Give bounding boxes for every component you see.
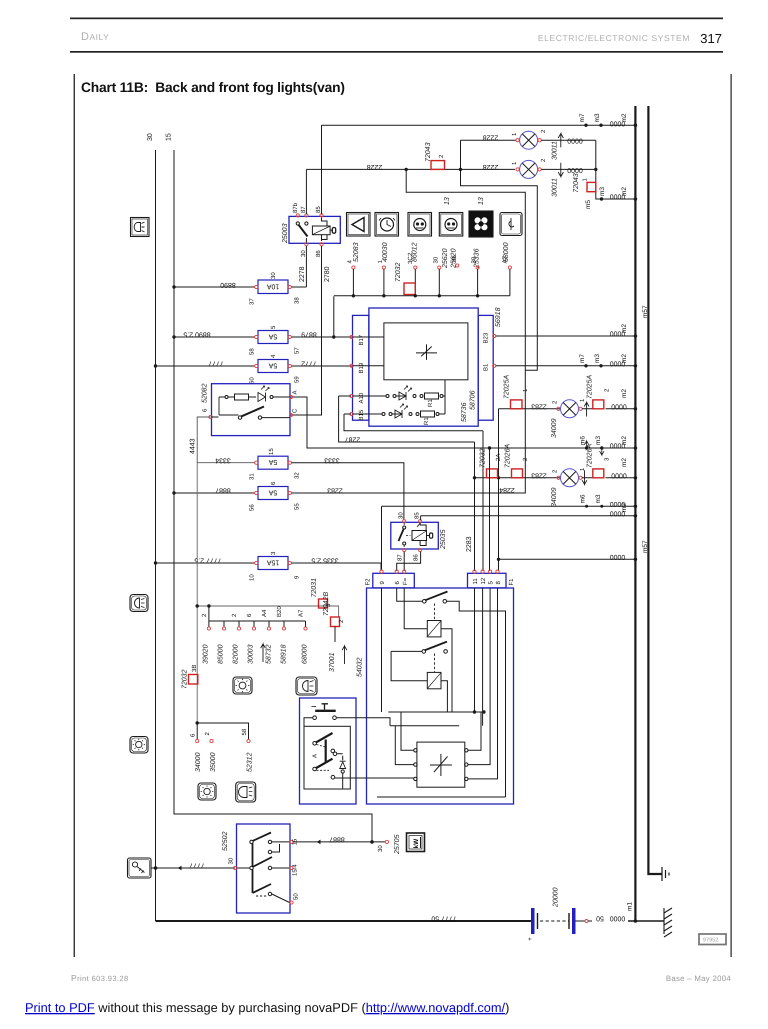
front fog lamp 30011 #1 bbox=[511, 129, 596, 160]
svg-text:20000: 20000 bbox=[553, 887, 560, 908]
svg-text:3335 2.5: 3335 2.5 bbox=[311, 557, 338, 564]
header second rule bbox=[70, 51, 723, 53]
svg-text:72026A: 72026A bbox=[505, 444, 512, 468]
svg-text:30: 30 bbox=[377, 845, 384, 852]
svg-text:3333: 3333 bbox=[324, 456, 340, 463]
svg-text:72026A: 72026A bbox=[587, 444, 594, 468]
svg-text:F1: F1 bbox=[508, 578, 515, 586]
svg-text:4443: 4443 bbox=[190, 438, 197, 454]
svg-text:37: 37 bbox=[249, 298, 256, 305]
bottom-right code box 97952 bbox=[699, 934, 726, 945]
svg-text:72025A: 72025A bbox=[504, 375, 511, 399]
svg-text:56: 56 bbox=[249, 504, 256, 511]
svg-text:m5: m5 bbox=[585, 200, 592, 209]
svg-text:86: 86 bbox=[315, 250, 322, 257]
svg-text:8890: 8890 bbox=[220, 281, 236, 288]
lower pin bus bbox=[201, 606, 309, 664]
svg-text:5A: 5A bbox=[268, 333, 277, 340]
svg-text:57: 57 bbox=[294, 347, 301, 354]
drop 2283 to F1 pin 11 bbox=[466, 442, 475, 571]
svg-text:B1: B1 bbox=[483, 363, 490, 371]
svg-text:A: A bbox=[292, 390, 299, 394]
icon park lamp bbox=[198, 783, 216, 800]
svg-text:m3: m3 bbox=[595, 436, 602, 445]
big control unit 54032 bbox=[357, 588, 514, 804]
svg-text:2284: 2284 bbox=[499, 486, 515, 493]
svg-text:5A: 5A bbox=[268, 362, 277, 369]
svg-text:30: 30 bbox=[433, 256, 440, 263]
svg-text:m2: m2 bbox=[621, 324, 628, 333]
svg-text:m2: m2 bbox=[621, 389, 628, 398]
wire 2780 to switch C bbox=[290, 246, 322, 415]
connector strip F2 bbox=[365, 570, 415, 588]
front fog lamp 30011 #2 bbox=[511, 158, 596, 197]
ignition switch 52502 bbox=[222, 824, 300, 913]
svg-text:15: 15 bbox=[166, 133, 173, 141]
supply line 30 bbox=[155, 150, 157, 921]
ground row from F2 bbox=[382, 494, 638, 570]
svg-text:32: 32 bbox=[294, 472, 301, 479]
svg-text:8879: 8879 bbox=[301, 331, 317, 338]
connector 72032 on 86012 wire bbox=[395, 262, 415, 294]
svg-text:86: 86 bbox=[413, 554, 420, 561]
svg-text:7777 2.5: 7777 2.5 bbox=[194, 557, 221, 564]
switch A wire to ground bbox=[290, 397, 637, 455]
svg-text:72032: 72032 bbox=[395, 262, 402, 282]
svg-text:2287: 2287 bbox=[345, 435, 361, 442]
svg-text:50: 50 bbox=[293, 893, 300, 900]
svg-text:30: 30 bbox=[398, 512, 405, 519]
svg-text:2228: 2228 bbox=[483, 134, 499, 141]
svg-text:25620: 25620 bbox=[442, 248, 449, 269]
svg-text:2283: 2283 bbox=[531, 402, 547, 409]
control unit 56918 bbox=[350, 307, 502, 426]
svg-text:8887: 8887 bbox=[215, 487, 231, 494]
svg-text:30011: 30011 bbox=[552, 141, 559, 160]
svg-text:0000: 0000 bbox=[611, 471, 627, 478]
svg-text:56918: 56918 bbox=[495, 307, 502, 327]
svg-text:7777: 7777 bbox=[208, 360, 224, 367]
fuse row2 7777/5A/7772 bbox=[154, 354, 352, 384]
ground bus bar A bbox=[634, 106, 636, 921]
svg-text:Print 603.93.28: Print 603.93.28 bbox=[71, 973, 129, 983]
wire 2228 horizontal bbox=[306, 163, 515, 171]
icon interior lamp bbox=[233, 677, 252, 694]
rear fog lamp 34009 #2 row bbox=[473, 444, 637, 507]
svg-text:2278: 2278 bbox=[299, 266, 306, 282]
svg-text:5A: 5A bbox=[268, 489, 277, 496]
svg-text:3B: 3B bbox=[191, 665, 198, 672]
svg-text:25035: 25035 bbox=[440, 529, 447, 550]
svg-text:m2: m2 bbox=[621, 503, 628, 512]
svg-text:317: 317 bbox=[700, 31, 722, 46]
svg-text:52502: 52502 bbox=[222, 831, 229, 851]
svg-text:40030: 40030 bbox=[382, 242, 389, 262]
svg-text:39020: 39020 bbox=[203, 644, 210, 664]
battery bbox=[528, 887, 664, 943]
svg-text:7772: 7772 bbox=[301, 360, 317, 367]
svg-text:Base – May 2004: Base – May 2004 bbox=[666, 974, 732, 983]
icon heater fan 25336 bbox=[469, 197, 493, 296]
icon instrument 86012 bbox=[407, 213, 432, 296]
svg-text:12: 12 bbox=[480, 577, 487, 584]
svg-text:30: 30 bbox=[147, 133, 154, 141]
connector 72031 bbox=[311, 578, 332, 608]
svg-text:5A: 5A bbox=[268, 458, 277, 465]
svg-text:15A: 15A bbox=[266, 559, 279, 566]
svg-text:52312: 52312 bbox=[247, 752, 254, 772]
svg-text:37001: 37001 bbox=[329, 652, 336, 672]
top ground wire m7 m3 0000 bbox=[322, 113, 638, 127]
icon headlamp low beam bbox=[236, 782, 256, 802]
svg-text:25705: 25705 bbox=[394, 834, 401, 855]
svg-text:m3: m3 bbox=[599, 187, 606, 196]
fuse row1 8890/5A/8879 bbox=[172, 296, 352, 355]
B15 wire bbox=[344, 414, 483, 431]
svg-text:34000: 34000 bbox=[195, 752, 202, 772]
svg-text:0000: 0000 bbox=[567, 139, 583, 146]
fuse row4 8887/5A/2283 bbox=[172, 169, 525, 511]
svg-text:2283: 2283 bbox=[327, 487, 343, 494]
svg-text:13: 13 bbox=[478, 197, 485, 205]
svg-text:B17: B17 bbox=[358, 334, 365, 345]
svg-text:55: 55 bbox=[294, 503, 301, 510]
svg-text:0000: 0000 bbox=[610, 553, 626, 560]
svg-text:A10: A10 bbox=[358, 392, 365, 403]
svg-text:m6: m6 bbox=[580, 494, 587, 503]
svg-text:30011: 30011 bbox=[552, 178, 559, 197]
junction at ground row bbox=[497, 558, 500, 561]
svg-text:3334: 3334 bbox=[215, 456, 231, 463]
wire 7777 to ignition switch bbox=[151, 862, 235, 871]
B1 ground wire bbox=[496, 354, 637, 368]
gray riser to lower connectors bbox=[196, 463, 198, 723]
svg-text:A7: A7 bbox=[502, 255, 509, 263]
svg-text:8887: 8887 bbox=[329, 835, 345, 842]
drop B15 to F1 pin 12 bbox=[482, 431, 484, 571]
svg-text:2228: 2228 bbox=[367, 163, 383, 170]
svg-text:85: 85 bbox=[315, 206, 322, 213]
header top rule bbox=[70, 18, 723, 20]
svg-text:97952: 97952 bbox=[703, 938, 718, 944]
svg-text:A7: A7 bbox=[298, 609, 305, 617]
svg-text:58: 58 bbox=[241, 728, 248, 735]
small switch unit bbox=[300, 698, 414, 804]
svg-text:A: A bbox=[312, 754, 319, 758]
svg-text:m1: m1 bbox=[627, 902, 634, 911]
svg-text:54032: 54032 bbox=[357, 657, 364, 677]
tachograph kW box bbox=[407, 833, 425, 852]
svg-text:m3: m3 bbox=[595, 494, 602, 503]
svg-text:B20: B20 bbox=[276, 606, 283, 617]
connector strip F1 bbox=[468, 570, 516, 588]
pin bus wire 2278 feed bbox=[334, 294, 510, 297]
left icon headlamp bbox=[131, 218, 150, 237]
svg-text:60: 60 bbox=[249, 377, 256, 384]
icon lamp left bbox=[130, 737, 148, 754]
relay 85 riser bbox=[420, 516, 422, 521]
lower connector pins 34000/35000/52312 bbox=[190, 721, 254, 772]
icon rear fog switch bbox=[296, 677, 317, 695]
lamp1 30011 feed bbox=[461, 134, 538, 371]
svg-text:0000: 0000 bbox=[611, 402, 627, 409]
svg-text:52082: 52082 bbox=[202, 383, 209, 403]
connector 72043 on 2228 wire bbox=[425, 142, 445, 169]
svg-text:Print to PDF without this mess: Print to PDF without this message by pur… bbox=[25, 1000, 509, 1015]
svg-text:0000: 0000 bbox=[610, 119, 626, 126]
svg-text:A4: A4 bbox=[261, 609, 268, 617]
svg-text:58: 58 bbox=[249, 348, 256, 355]
svg-text:72043: 72043 bbox=[573, 173, 580, 193]
svg-text:50: 50 bbox=[596, 915, 604, 922]
svg-text:15/4: 15/4 bbox=[292, 864, 299, 876]
svg-text:m3: m3 bbox=[594, 354, 601, 363]
svg-text:31: 31 bbox=[249, 473, 256, 480]
svg-text:R1: R1 bbox=[427, 399, 434, 407]
relay 87 to F2 bbox=[403, 552, 405, 571]
icon instrument 25620 bbox=[433, 197, 463, 296]
icon clock 40030 bbox=[375, 213, 399, 296]
B23 ground wire bbox=[496, 324, 637, 338]
svg-text:DAILY: DAILY bbox=[81, 31, 109, 43]
svg-text:59: 59 bbox=[294, 376, 301, 383]
ground row from relay 85 bbox=[421, 503, 638, 518]
svg-text:kW: kW bbox=[413, 838, 420, 849]
feed vertical to lamps 34009 bbox=[498, 409, 500, 571]
svg-text:68000: 68000 bbox=[302, 644, 309, 664]
svg-text:35000: 35000 bbox=[210, 752, 217, 772]
drop A to F1 pin 5 bbox=[489, 448, 491, 571]
svg-text:m7: m7 bbox=[579, 113, 586, 122]
A10 wire 2287 bbox=[339, 396, 475, 442]
supply line 15 bbox=[174, 150, 372, 842]
svg-text:58736: 58736 bbox=[461, 402, 468, 422]
right page border bbox=[731, 74, 732, 957]
icon rear fog indicator left bbox=[130, 595, 148, 612]
svg-text:30: 30 bbox=[270, 272, 277, 279]
svg-text:2780: 2780 bbox=[324, 266, 331, 282]
svg-text:0000: 0000 bbox=[610, 359, 626, 366]
svg-text:72043: 72043 bbox=[425, 142, 432, 162]
svg-text:7777: 7777 bbox=[189, 862, 205, 869]
icon ignition key bbox=[128, 858, 152, 878]
svg-text:m3: m3 bbox=[594, 113, 601, 122]
ground symbol hatched bbox=[664, 908, 672, 937]
svg-text:15: 15 bbox=[268, 448, 275, 455]
ground bus bar B bbox=[648, 106, 662, 874]
ground symbol 3-bar bbox=[662, 867, 669, 881]
fuse row3 3334/5A/3333 bbox=[197, 448, 404, 520]
rear fog lamp 34009 #1 row bbox=[499, 375, 638, 438]
svg-text:m7: m7 bbox=[579, 354, 586, 363]
svg-text:25003: 25003 bbox=[282, 223, 289, 244]
svg-text:30: 30 bbox=[471, 256, 478, 263]
wire 4443 bbox=[190, 417, 211, 463]
connector 72043 right bbox=[573, 173, 596, 193]
svg-text:38: 38 bbox=[294, 297, 301, 304]
svg-text:2228: 2228 bbox=[483, 163, 499, 170]
svg-text:+: + bbox=[528, 937, 532, 943]
svg-text:2A: 2A bbox=[495, 454, 502, 461]
svg-text:10A: 10A bbox=[266, 283, 279, 290]
left page border bbox=[74, 74, 75, 957]
svg-text:72031: 72031 bbox=[311, 578, 318, 598]
svg-text:C: C bbox=[292, 408, 299, 413]
svg-text:B23: B23 bbox=[483, 332, 490, 343]
fuse row5 7777 2.5/15A/3335 bbox=[154, 551, 381, 581]
svg-text:58918: 58918 bbox=[281, 644, 288, 664]
svg-text:87: 87 bbox=[397, 554, 404, 561]
svg-text:58706: 58706 bbox=[470, 390, 477, 410]
gray branch to 72031/72042B bbox=[196, 604, 339, 617]
svg-text:m2: m2 bbox=[621, 458, 628, 467]
fuse 10A row bbox=[172, 272, 306, 305]
bottom main wire 7777 50 bbox=[156, 920, 532, 922]
wire 2278 bbox=[305, 246, 307, 287]
svg-text:0000: 0000 bbox=[610, 442, 626, 449]
svg-text:2283: 2283 bbox=[466, 536, 473, 552]
svg-text:34009: 34009 bbox=[551, 487, 558, 507]
fog light switch 52082 bbox=[202, 383, 299, 435]
svg-text:72042B: 72042B bbox=[323, 592, 330, 616]
relay 86 to F2 bbox=[397, 552, 421, 571]
svg-text:F=: F= bbox=[402, 577, 409, 585]
svg-text:30: 30 bbox=[228, 857, 235, 864]
svg-text:85: 85 bbox=[414, 512, 421, 519]
wire 8887 to 25705 bbox=[293, 834, 401, 855]
svg-text:30003: 30003 bbox=[248, 644, 255, 664]
svg-text:B15: B15 bbox=[358, 409, 365, 420]
svg-text:72032: 72032 bbox=[182, 669, 189, 689]
svg-text:ELECTRIC/ELECTRONIC SYSTEM: ELECTRIC/ELECTRONIC SYSTEM bbox=[538, 33, 690, 43]
ground row from F1 pin 8 bbox=[499, 553, 638, 561]
junction on lamp feed bbox=[497, 476, 500, 479]
svg-text:R1: R1 bbox=[423, 417, 430, 425]
svg-text:m2: m2 bbox=[621, 187, 628, 196]
svg-text:11: 11 bbox=[472, 578, 479, 585]
svg-text:0000: 0000 bbox=[610, 915, 626, 922]
svg-text:13: 13 bbox=[444, 197, 451, 205]
svg-text:8890 2.5: 8890 2.5 bbox=[183, 331, 210, 338]
svg-text:F2: F2 bbox=[365, 578, 372, 586]
right 0000 drop to bus bbox=[585, 140, 637, 209]
icon warning triangle 52083 bbox=[347, 213, 371, 296]
svg-text:58732: 58732 bbox=[266, 644, 273, 664]
icon diagnostic socket 68000 bbox=[500, 213, 522, 296]
svg-text:Chart 11B: Back and front fog: Chart 11B: Back and front fog lights(van… bbox=[81, 80, 345, 95]
svg-text:82000: 82000 bbox=[233, 644, 240, 664]
svg-text:m57: m57 bbox=[642, 305, 649, 318]
connector 72032 3B on riser bbox=[182, 665, 199, 689]
svg-text:m57: m57 bbox=[642, 540, 649, 553]
svg-text:87b: 87b bbox=[292, 202, 299, 213]
wire from relay 85 to top ground bbox=[321, 125, 323, 214]
svg-text:52083: 52083 bbox=[353, 242, 360, 262]
svg-text:7777 50: 7777 50 bbox=[431, 915, 456, 922]
svg-text:86: 86 bbox=[451, 255, 458, 262]
svg-text:10: 10 bbox=[249, 574, 256, 581]
wire 2228 from relay 87 bbox=[305, 169, 307, 214]
svg-text:34009: 34009 bbox=[551, 418, 558, 438]
svg-text:2283: 2283 bbox=[531, 471, 547, 478]
svg-text:72025A: 72025A bbox=[587, 375, 594, 399]
connector 72042B bbox=[323, 592, 347, 672]
svg-text:B19: B19 bbox=[358, 362, 365, 373]
svg-text:85000: 85000 bbox=[218, 644, 225, 664]
relay 25035 bbox=[391, 512, 447, 561]
relay 25003 bbox=[282, 202, 340, 257]
